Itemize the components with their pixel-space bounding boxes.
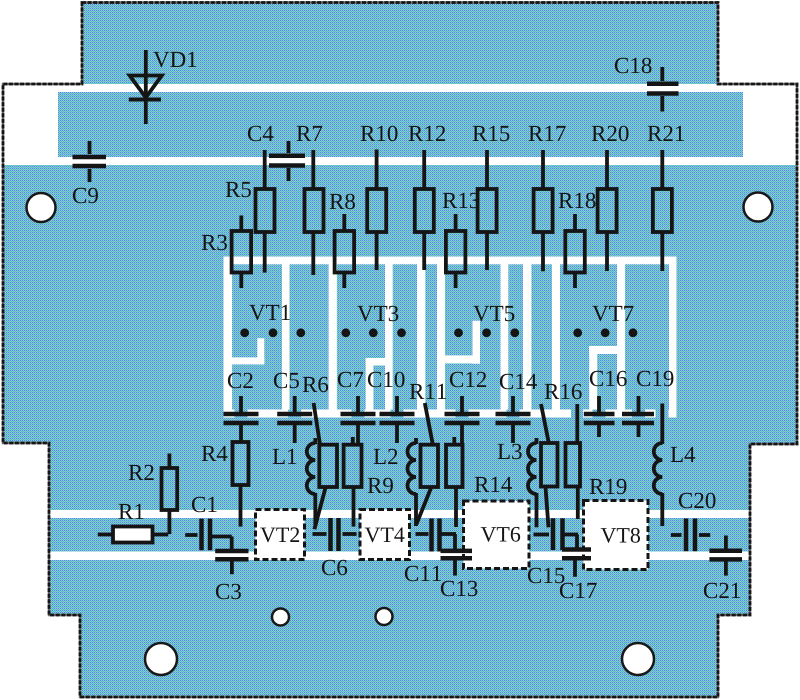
VT7 cell step jog: [589, 346, 625, 354]
capacitor C2: [224, 396, 259, 443]
capacitor C20: [671, 519, 710, 552]
resistor R12: [415, 150, 434, 270]
pattern right termination bar: [669, 257, 677, 418]
wire R14 pair right top lead: [575, 404, 579, 443]
board copper: top band: [82, 3, 718, 85]
capacitor C15: [534, 518, 579, 550]
resistor R21: [653, 150, 672, 271]
inductor L3: [528, 438, 537, 527]
capacitor C19: [622, 396, 654, 437]
VT1 cell divider bar: [282, 257, 290, 418]
board copper: main body upper: [3, 165, 797, 510]
board copper: lower body: [49, 560, 750, 697]
inductor L4: [654, 404, 663, 527]
resistor R1: [98, 527, 168, 543]
capacitor C6: [313, 518, 357, 551]
transistor via dots VT7: [573, 328, 582, 337]
mounting hole top-right: [744, 193, 773, 222]
inductor L2: [408, 438, 417, 526]
small hole left: [272, 609, 289, 626]
resistor R18: [565, 214, 585, 288]
labels L row: [129, 444, 696, 494]
transistor VT6: [464, 501, 530, 569]
resistor R8: [335, 214, 355, 288]
labels mid-upper: [202, 182, 634, 321]
wire pattern to R6 pair: [314, 403, 321, 445]
labels top: [73, 52, 684, 203]
VT3 cell left bar: [329, 257, 337, 418]
upper row resistors: [232, 150, 672, 289]
labels caps row: [228, 371, 674, 399]
resistor R7: [305, 150, 324, 275]
capacitor C21: [709, 536, 742, 576]
resistor pair R9: [417, 437, 463, 527]
VT3 cell spur: [366, 358, 387, 366]
capacitor C4: [269, 141, 305, 181]
mounting hole bottom-right: [622, 643, 654, 675]
VT3 cell divider bar: [385, 257, 393, 418]
capacitor C3: [215, 551, 248, 574]
capacitor C12: [445, 396, 480, 443]
resistor R5: [256, 150, 275, 273]
board copper: inner strip: [58, 92, 743, 157]
capacitor C16: [584, 396, 615, 437]
VT7 cell step descender: [589, 346, 597, 418]
VT5 cell divider bar: [501, 257, 509, 418]
capacitor C9: [73, 141, 107, 182]
VT5 cell spur hook: [473, 321, 481, 364]
resistor R4: [233, 442, 249, 527]
transistor via dots VT5: [454, 328, 463, 337]
capacitor C11: [416, 519, 457, 552]
resistor R15: [478, 150, 497, 270]
VT5 cell spur: [439, 355, 480, 363]
VT1 cell spur: [230, 357, 264, 364]
capacitor C14: [496, 396, 531, 443]
COMPONENTS: [73, 50, 679, 182]
wire pattern to R14 pair: [541, 404, 549, 444]
VT5 cell right bar: [523, 257, 531, 418]
VT1 cell spur hook: [257, 338, 264, 364]
capacitor C5: [277, 396, 312, 443]
transistor via dots VT1: [240, 328, 637, 337]
diode VD1: [129, 50, 162, 124]
VT3 cell right bar: [417, 257, 425, 418]
resistor pair R14: [541, 443, 580, 527]
capacitor C18: [647, 67, 679, 112]
VT7 cell divider bar: [617, 257, 625, 418]
inductor L1: [307, 438, 316, 526]
board copper: mid band: [49, 518, 750, 552]
inductor / resistor-pair row: [162, 404, 663, 535]
resistor R13: [446, 214, 466, 288]
resistor pair R6: [314, 437, 361, 529]
wire pattern to R9 pair: [425, 403, 433, 445]
labels bottom row: [119, 493, 740, 600]
capacitor C7: [341, 396, 376, 443]
capacitor C1: [185, 519, 232, 551]
resistor R20: [598, 150, 617, 271]
resistor R17: [534, 150, 553, 271]
VT7 cell left bar: [552, 257, 560, 418]
transistor VT4: [360, 510, 410, 560]
VT1 cell left bar: [224, 257, 233, 418]
pattern bottom line: [224, 410, 676, 418]
VT5 cell left bar: [437, 257, 445, 418]
mounting hole top-left: [27, 193, 56, 222]
resistor R10: [367, 150, 386, 271]
resistor R3: [232, 216, 252, 289]
capacitor C10: [380, 396, 415, 443]
small hole right: [376, 608, 393, 625]
VT3 cell spur descender: [366, 358, 374, 418]
pattern top line: [224, 257, 676, 265]
bypass capacitors row under pattern: [224, 396, 655, 445]
resistor R2: [162, 454, 178, 535]
capacitor C13: [441, 551, 473, 576]
transistor via dots VT3: [341, 328, 350, 337]
transistor VT2: [256, 510, 305, 560]
capacitor C17: [562, 550, 591, 577]
transistor VT8: [584, 501, 649, 570]
blue tabs punched through pattern bottom line at capacitor leads: [235, 405, 669, 419]
mounting hole bottom-left: [145, 643, 177, 675]
PATTERN-AREA (white isolation lines): [224, 257, 677, 418]
